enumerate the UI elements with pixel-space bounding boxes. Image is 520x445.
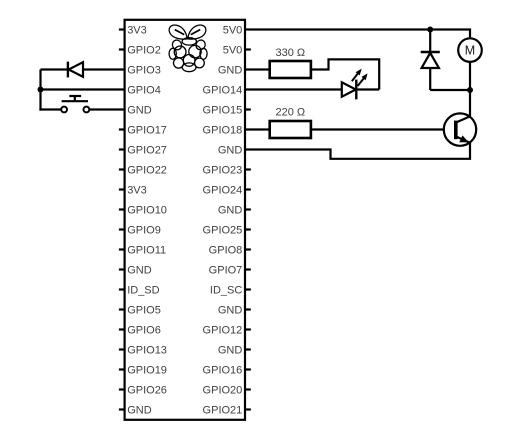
svg-text:GPIO27: GPIO27 (127, 144, 167, 156)
svg-text:330 Ω: 330 Ω (275, 47, 305, 59)
svg-text:GPIO11: GPIO11 (127, 244, 166, 256)
svg-text:GND: GND (218, 144, 243, 156)
svg-text:GND: GND (218, 204, 243, 216)
svg-text:GPIO7: GPIO7 (209, 264, 243, 276)
svg-text:GPIO26: GPIO26 (127, 384, 167, 396)
svg-text:GND: GND (218, 304, 243, 316)
svg-text:GPIO14: GPIO14 (203, 84, 243, 96)
svg-text:GPIO3: GPIO3 (127, 64, 161, 76)
svg-text:GPIO2: GPIO2 (127, 44, 161, 56)
svg-text:GPIO21: GPIO21 (203, 404, 243, 416)
svg-text:GPIO20: GPIO20 (203, 384, 243, 396)
svg-text:GND: GND (127, 104, 152, 116)
svg-text:3V3: 3V3 (127, 24, 147, 36)
svg-text:220 Ω: 220 Ω (275, 107, 305, 119)
svg-text:GPIO24: GPIO24 (203, 184, 243, 196)
svg-text:GPIO6: GPIO6 (127, 324, 161, 336)
svg-text:GPIO10: GPIO10 (127, 204, 167, 216)
svg-text:GPIO9: GPIO9 (127, 224, 161, 236)
svg-text:GPIO22: GPIO22 (127, 164, 167, 176)
svg-text:GPIO13: GPIO13 (127, 344, 167, 356)
svg-text:GND: GND (127, 264, 152, 276)
svg-text:5V0: 5V0 (223, 24, 243, 36)
svg-text:GPIO4: GPIO4 (127, 84, 161, 96)
svg-text:GPIO23: GPIO23 (203, 164, 243, 176)
svg-text:GPIO17: GPIO17 (127, 124, 167, 136)
svg-text:GPIO16: GPIO16 (203, 364, 243, 376)
svg-text:3V3: 3V3 (127, 184, 147, 196)
svg-text:GPIO5: GPIO5 (127, 304, 161, 316)
svg-text:GND: GND (218, 64, 243, 76)
svg-text:GPIO15: GPIO15 (203, 104, 243, 116)
svg-text:5V0: 5V0 (223, 44, 243, 56)
svg-text:GPIO8: GPIO8 (209, 244, 243, 256)
svg-text:GND: GND (218, 344, 243, 356)
svg-text:ID_SC: ID_SC (210, 284, 242, 296)
svg-text:GPIO18: GPIO18 (203, 124, 243, 136)
svg-text:GPIO19: GPIO19 (127, 364, 167, 376)
svg-text:ID_SD: ID_SD (127, 284, 159, 296)
svg-text:GPIO25: GPIO25 (203, 224, 243, 236)
svg-text:M: M (465, 44, 475, 58)
svg-text:GND: GND (127, 404, 152, 416)
svg-text:GPIO12: GPIO12 (203, 324, 243, 336)
